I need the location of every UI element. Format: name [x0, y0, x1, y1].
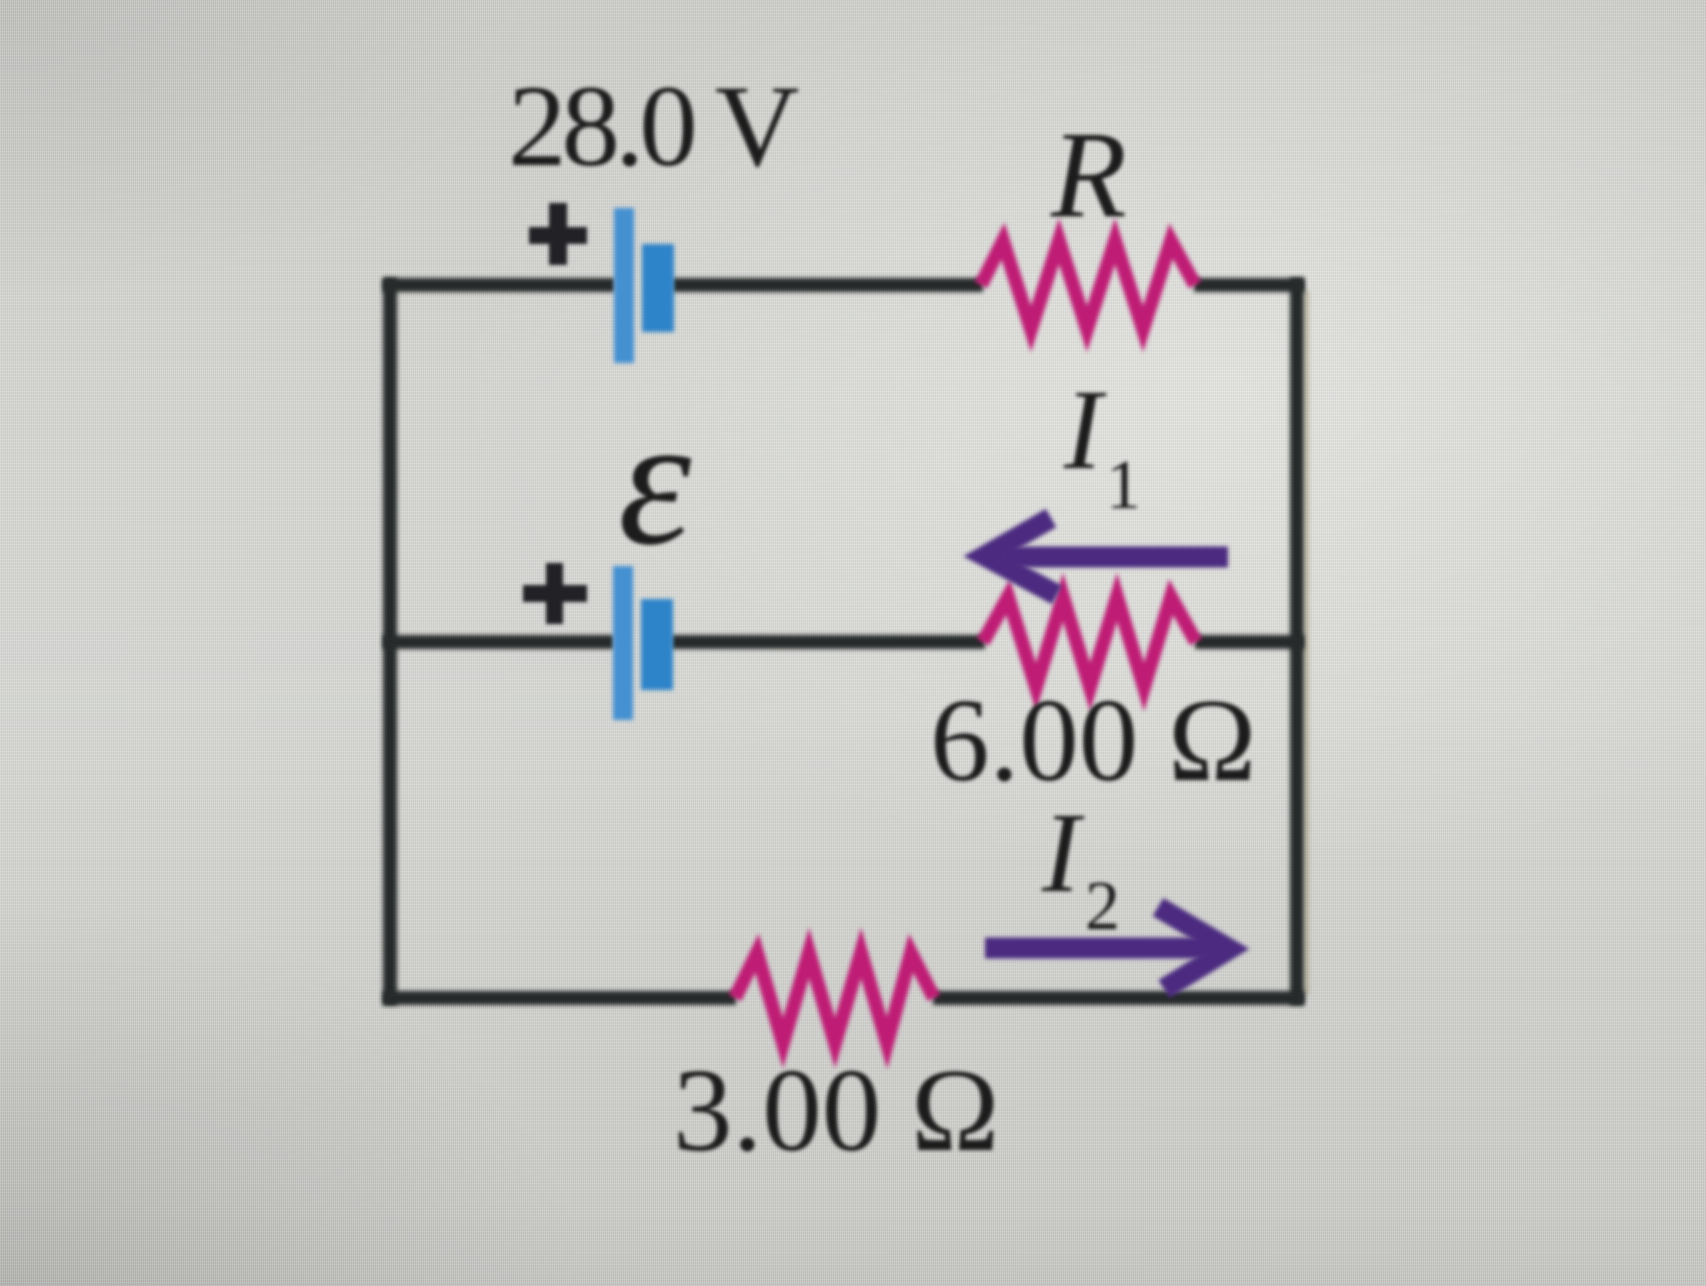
wire right vertical bright edge: [1306, 290, 1309, 995]
resistor R zigzag: [981, 241, 1195, 329]
wire right vertical: [1290, 285, 1304, 998]
wire top middle segment: [672, 278, 983, 292]
battery V1 long plate: [614, 208, 634, 363]
wire middle left segment: [383, 635, 614, 649]
svg-text:28.0 V: 28.0 V: [508, 62, 799, 191]
battery V1 plus polarity mark: [529, 203, 587, 265]
wire bottom left segment: [383, 991, 736, 1005]
wire bottom right segment: [933, 991, 1304, 1005]
current arrow I1 shaft: [1002, 547, 1228, 568]
battery E short plate: [641, 599, 673, 690]
svg-text:I: I: [1041, 789, 1085, 916]
battery V1 short plate: [642, 244, 674, 332]
svg-text:1: 1: [1106, 447, 1141, 524]
svg-text:R: R: [1050, 106, 1127, 243]
wire top right segment: [1194, 278, 1304, 292]
battery E long plate: [613, 566, 633, 720]
wire middle mid segment: [671, 635, 985, 649]
svg-text:3.00 Ω: 3.00 Ω: [673, 1044, 999, 1176]
wire left vertical: [383, 285, 397, 998]
wire top left segment: [383, 278, 615, 292]
resistor 3.00 ohm zigzag: [735, 953, 934, 1043]
svg-text:I: I: [1063, 366, 1107, 493]
resistor 6.00 ohm zigzag: [983, 597, 1196, 687]
wire middle right segment: [1195, 635, 1304, 649]
svg-text:2: 2: [1085, 868, 1120, 945]
svg-text:ε: ε: [618, 378, 692, 584]
svg-text:6.00 Ω: 6.00 Ω: [930, 674, 1256, 806]
current arrow I2 shaft: [985, 938, 1214, 959]
current arrow I1 head: [985, 518, 1057, 595]
battery E plus polarity mark: [523, 563, 587, 624]
current arrow I2 head: [1158, 907, 1229, 989]
